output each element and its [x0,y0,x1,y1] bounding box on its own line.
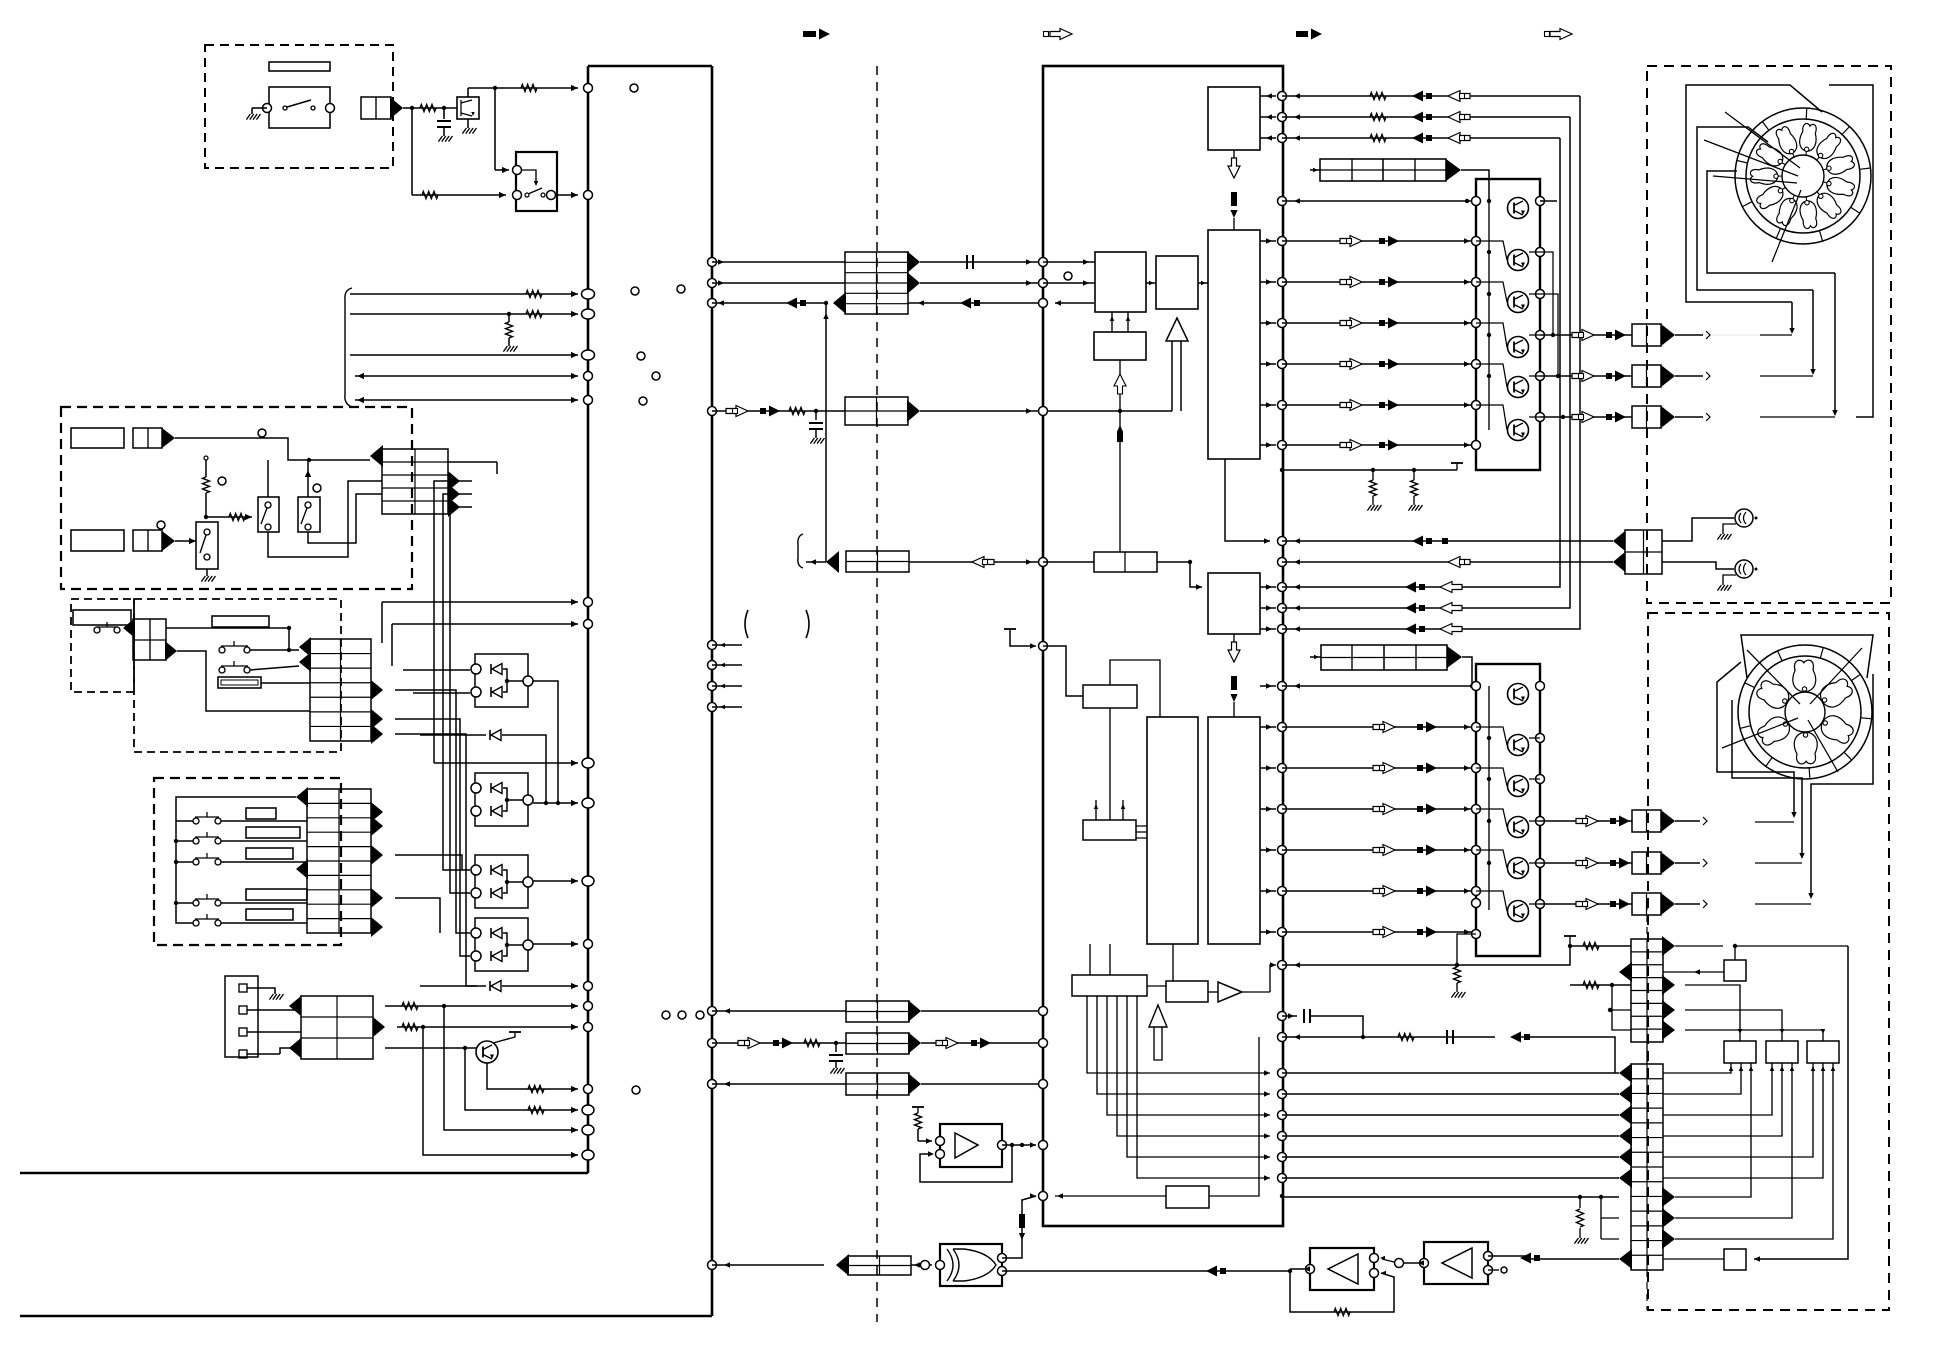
connector block B [382,449,448,514]
motor M2 wires3 [1811,674,1873,895]
wire xor in1 [1002,1193,1036,1258]
wire C row651 [177,651,310,711]
speaker SP2 [1735,560,1758,578]
wire row562 left [806,559,826,564]
label rect C2a [212,616,269,627]
wire xor out [911,1261,932,1270]
arrow pair outB0 [1576,816,1630,827]
wire opamp fb [920,1143,1014,1182]
IC wire r34 [1146,281,1208,286]
resistor R1 [420,105,436,112]
stepper motor M1 [1735,108,1871,244]
pin r26 [1278,1090,1287,1099]
switch SB2 [298,497,320,532]
wire row470 [1282,463,1463,472]
pin r3 [1278,197,1287,206]
resistor Rt1 [1370,114,1386,121]
pin r10 [1278,537,1287,546]
wire row294 [350,291,578,297]
wire row1084 [712,1081,846,1086]
pin p20 [582,1150,594,1160]
wire outA2b [1675,413,1710,421]
wire rowA5 [1282,442,1476,447]
wire CN5 r4 [247,1048,301,1054]
ground SWg [201,569,215,582]
wire CN1 to opto [403,106,457,110]
arrow pair trio0 [1412,91,1470,102]
connector block I [846,1001,909,1022]
square SQ2 [1724,1249,1746,1270]
motor M2 needle1 [1747,650,1800,704]
terminal circ mid [677,285,685,293]
IC circ [1064,272,1072,280]
pin r2 [1278,134,1287,143]
resistor R5 [526,311,542,318]
wire row1130 [444,1006,578,1133]
wire bar1 [1461,170,1491,203]
arrow pair rowB3 [1373,845,1437,856]
wire C row628 [166,626,291,650]
wire SB1 bot [268,481,382,557]
arrow pair rowA0 [1340,236,1399,247]
motor M2 needle2 [1810,648,1862,704]
arrow pair outB2 [1576,899,1630,910]
label rect B1 [71,428,124,448]
ground SP1 [1717,524,1736,540]
wire blockB gnd [1451,934,1476,998]
wire SQ2 [1663,1258,1724,1260]
wire outA1b [1675,372,1710,380]
inverter U4 [1420,1242,1493,1284]
wire rowB0 [1282,724,1476,729]
capacitor C1 [437,108,452,142]
resistor Rt0 [1370,93,1386,100]
wire vert2 [443,494,472,870]
IC wire row411 in [1114,360,1126,552]
arrow blockD L1 [296,787,308,807]
IC rect R14 [1166,1186,1209,1208]
resistor Rm [789,408,805,415]
label rect D1 [246,808,276,819]
wire C label [261,682,310,684]
wire vert4 [395,690,470,933]
pin q15 [708,1039,717,1048]
pin r27 [1278,1111,1287,1120]
driver box tops [1738,1029,1826,1041]
ground ignition [246,108,267,120]
wire outB1b [1675,859,1707,867]
blockA left pins [1472,197,1481,450]
IC rect R8 [1208,717,1260,944]
diode pack 3 [471,855,533,908]
blockB links [1476,727,1507,911]
blockB right pins [1536,682,1545,909]
label rect D5 [246,909,293,920]
arrow blockG [907,400,920,422]
wire row1084b [921,1083,1043,1085]
wire rowA0 [1282,238,1476,243]
arrow pair trio2 [1412,133,1470,144]
IC R7 outputs [1260,584,1276,631]
pin q6 [1039,407,1048,416]
push switch D2 [193,832,221,844]
pin p9 [584,620,593,629]
pin r12 [1278,583,1287,592]
wire trio vert1 [1452,117,1570,608]
arrow pair rowA3 [1340,359,1399,370]
arrow blockC R3 [371,724,383,744]
pin r11 [1278,558,1287,567]
wire U5 fb [1290,1271,1394,1312]
motor M1 needle2 [1704,140,1798,176]
IC tri T2 [1218,962,1276,1002]
label rect D3 [246,848,293,859]
cap row411 [809,411,824,444]
supply Q1 [493,1032,521,1043]
diode pack 4 [471,918,533,971]
IC wire row303 [1055,300,1094,305]
wire D sw5 [221,922,307,924]
dashed box tacho [1647,66,1891,603]
blockB left pins [1472,682,1481,939]
wire rowm0 [1282,584,1452,589]
transistors B [1508,684,1529,922]
fold line [876,66,878,1322]
IC wire t2 [1260,114,1276,119]
circle B3 [218,477,226,485]
dashed box C1 [71,599,134,692]
pin q11 [708,682,743,691]
cap row1043 [829,1043,844,1074]
wire outB2b [1675,900,1707,908]
wire spk2 [1662,562,1734,569]
motor M2 needle4 [1808,720,1838,772]
wire row1043 [712,1041,846,1045]
connector block F [845,252,908,314]
resistor RQ1 [528,1086,544,1093]
pin p10 [582,758,594,768]
motor M2 needle3 [1722,718,1798,748]
cap R1037 [1447,1030,1453,1044]
pin p18 [582,1105,594,1115]
wire row1265 [712,1262,824,1267]
arrow blockD L2 [296,859,308,879]
pin r20 [1278,887,1287,896]
IC arrow open down [1228,150,1240,178]
terminal trio [662,1011,704,1019]
stack dash [1646,903,1648,1064]
motor M1 wires2 [1697,127,1813,290]
wire row965b [1560,946,1570,965]
IC rect R10 [1083,685,1137,708]
pin r15 [1278,682,1287,691]
arrow blockH [826,551,839,573]
pin r8 [1278,401,1287,410]
wire CN5 r3 [247,1031,301,1033]
push switch D3 [193,853,221,865]
page reference arrow 2 [1044,29,1073,40]
stack 2 [1631,1064,1663,1270]
arrow pair rowB1 [1373,763,1437,774]
paren right [806,610,809,638]
arrow pair row562b [1448,557,1470,568]
resistor R1110 [528,1107,544,1114]
wire stack r2 [1570,983,1631,987]
wire outB2 [1540,903,1632,905]
arrow pair outA0 [1572,330,1626,341]
IC rect R3 [1095,252,1146,312]
stack1 arrows L [1619,962,1632,982]
IC tri T1 wires [1172,341,1181,411]
wire pack1 out [533,681,558,803]
wire top row [468,85,578,97]
motor M2 joins [1755,822,1811,904]
terminal circles mid [631,287,660,405]
label rect C2b [218,677,261,688]
wire row314 [350,311,578,317]
push switch D4 [193,894,221,906]
resistor Rt2 [1370,135,1386,142]
wire pack1 in2 [413,692,470,694]
wire relay feed 2 [412,108,506,198]
wire relay feed [495,88,509,173]
wire opamp out [1012,1142,1036,1147]
connector CN2 [133,428,175,448]
arrow pair rowm1 [1405,603,1462,614]
wire row624 [392,621,578,666]
wire row400 [355,397,578,403]
pin r30 [1278,1174,1287,1183]
wire row763 [434,760,578,766]
pin r13 [1278,604,1287,613]
pin q3 [708,299,717,308]
arrow blockB rows [448,471,460,517]
diode D5 [420,730,546,804]
meter unit outline [20,66,712,1316]
connector outB2 [1632,893,1675,915]
wire blockB top [448,462,497,474]
IC rect R11 [1083,820,1136,840]
pin p17 [584,1085,593,1094]
pin q20 [1039,1192,1048,1201]
circle B2 [157,521,165,529]
wire row355 [350,352,578,358]
wire rowA2 [1282,320,1476,325]
wire trio0 [1282,93,1580,98]
pin r29 [1278,1153,1287,1162]
IC wire t1 [1260,93,1276,98]
arrow pair row1043a [738,1038,793,1049]
wire row686 [1282,683,1476,688]
IC tri T3 [1149,1005,1167,1060]
arrow pair rowB2 [1373,804,1437,815]
driver IC box [1043,66,1283,1226]
IC rect R9 [1147,717,1198,944]
blockB bias [1487,686,1491,910]
pin q18 [1039,1080,1048,1089]
arrow blockB row1 [370,445,383,467]
pin p15 [584,1002,593,1011]
IC wire t3 [1260,135,1276,140]
pin p13 [584,940,593,949]
push switch D5 [193,914,221,926]
relay K1 [513,152,558,211]
wire row562 mid [909,559,1043,564]
IC R12 verts [1090,944,1110,975]
wire row411b [920,408,1172,413]
pin p4 [582,309,595,319]
wire spk1 [1662,518,1734,541]
IC wire R13 [1147,986,1218,992]
wire trio1 [1282,114,1570,119]
arrow xor in2 [1206,1266,1226,1277]
wire outB0 [1540,820,1632,822]
wire row541 [1282,538,1613,543]
arrow pair outA2 [1572,412,1626,423]
blockA links [1476,241,1507,430]
IC staircase [1087,996,1270,1181]
resistor RB [203,456,210,519]
pin r19 [1278,846,1287,855]
connector block L [848,1256,911,1275]
resistor Rg2 [1408,470,1422,511]
vert right [1754,946,1848,1262]
pin r17 [1278,764,1287,773]
IC wire r3a [1043,259,1095,264]
terminal circ bl [632,1086,640,1094]
connector block C [310,639,371,741]
pin q9 [708,641,743,650]
pin q2 [708,279,717,288]
wire rowA3 [1282,361,1476,366]
connector block J [846,1033,909,1054]
square SQ1 [1724,960,1746,981]
connector block G [845,397,908,425]
pin r6 [1278,319,1287,328]
motor M1 joins [1710,335,1835,417]
blockA right pins [1536,197,1545,422]
page reference arrow 4 [1545,29,1573,40]
stack2 arrow bottom [1619,1249,1632,1269]
IC wire R7 in [1190,562,1202,590]
wire rowE1 [385,1003,578,1009]
wire U4U5 [1395,1259,1425,1268]
wire outA2 [1540,415,1632,419]
wire row376 [355,373,578,379]
wire mid row303 [712,300,828,305]
transistor block B2 [1476,664,1540,956]
wire D bus [174,797,296,923]
arrow pair row1043b [936,1038,991,1049]
resistor R3 [422,192,438,199]
pin r16 [1278,723,1287,732]
switch SW1 [263,100,335,113]
wire row1110 [465,1048,578,1113]
IC wire r5 [1110,312,1131,332]
capacitor C2 [967,255,973,269]
arrow blockD R1 [371,802,383,822]
resistor R1037 [1398,1034,1414,1041]
resistor Rn [804,1040,820,1047]
resistor R6 to gnd [503,314,517,352]
IC wire R11 up [1094,800,1126,820]
IC wire R2R7 [1225,459,1270,544]
arrow xor in1 [1019,1214,1025,1240]
arrow pair rowB4 [1373,886,1437,897]
IC rect R4 [1156,256,1198,309]
wire rowB1 [1282,765,1476,770]
wire outB0b [1675,817,1707,825]
wire SB2 top [305,460,311,497]
IC tri T1 [1166,318,1188,341]
arrow pair row562 [972,557,994,568]
op-amp U2 [936,1124,1007,1167]
pin r14 [1278,625,1287,634]
IC rect R5 [1094,332,1146,360]
wire C push1 [250,648,299,652]
arrow pair row411 [726,406,780,417]
resistor R4 [526,291,542,298]
IC rect R7 [1208,573,1260,634]
IC wire R11 r [1136,826,1147,838]
IC bottom vert [1209,1037,1259,1196]
pin r24 [1278,1033,1287,1042]
switch SW1 box [269,87,330,128]
wire row1239 [1592,1218,1619,1239]
page reference arrow 1 [803,29,830,40]
wire D sw4 [176,902,307,904]
motor M1 wires3 [1707,171,1835,273]
diode pack 2 [471,773,533,826]
pin r9 [1278,441,1287,450]
motor M1 drop2 [1810,290,1815,375]
ground opto [462,119,476,134]
arrow blockC L2 [299,652,311,672]
connector speaker [1613,530,1662,574]
IC wire row562 in [1043,560,1192,564]
arrow blockF L3 [833,292,846,314]
motor M1 needle4 [1772,190,1801,262]
wire row201 [1282,198,1476,203]
wire rowA4 [1282,402,1476,407]
resistor Rs2 [1583,982,1599,989]
pin p8 [584,598,593,607]
motor M1 drop3 [1832,273,1837,416]
wire vert3 [450,507,472,893]
fan wires [1663,1063,1835,1239]
arrow pair rowB5 [1373,927,1437,938]
wire trio2 [1282,135,1560,140]
resistor RE2 [402,1024,418,1031]
diode D6 [420,981,578,992]
diode pack 1 [471,654,533,707]
wire rowB3 [1282,847,1476,852]
arrow blockC R1 [371,680,383,700]
IC wire r3b [1043,280,1095,285]
ground CN5 [247,988,283,1000]
arrow pair rowB0 [1373,722,1437,733]
wire row1011 [712,1008,846,1013]
switch SB1 [258,497,279,532]
wire rowm1 [1282,605,1452,610]
resistor R1197 [1574,1197,1588,1244]
pin q7 [1039,558,1048,567]
arrow pair rowm0 [1405,582,1462,593]
connector block K [846,1073,909,1095]
wire row562b [1282,559,1613,564]
wire outB1 [1540,862,1632,864]
push switch D1 [193,812,221,824]
